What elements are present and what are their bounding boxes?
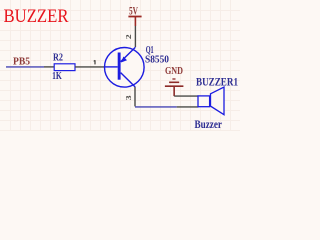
- svg-text:R2: R2: [53, 52, 63, 64]
- wire collector to buzzer: [135, 106, 177, 108]
- transistor Q1 emitter arrow (PNP): [121, 57, 127, 63]
- emitter pin 2 wire to 5V: [134, 26, 136, 47]
- svg-text:BUZZER1: BUZZER1: [196, 77, 238, 89]
- resistor R2 (pin 2, body, pin 1): [44, 66, 54, 68]
- ground symbol: [172, 78, 175, 80]
- svg-text:3: 3: [124, 95, 133, 100]
- pin number 1 (Q1 base): [94, 60, 96, 64]
- svg-text:BUZZER: BUZZER: [4, 6, 69, 27]
- wire GND to buzzer pin 1 (top): [174, 95, 198, 97]
- svg-text:PB5: PB5: [13, 56, 30, 68]
- transistor Q1 base bar: [118, 53, 121, 80]
- transistor Q1 collector line: [121, 73, 136, 87]
- buzzer BUZZER1 body: [198, 96, 210, 107]
- svg-text:2: 2: [124, 34, 133, 39]
- transistor Q1 circle: [105, 48, 145, 88]
- wire PB5 to R2: [6, 66, 44, 68]
- svg-text:GND: GND: [165, 65, 183, 77]
- buzzer pin 2 (bottom): [177, 106, 199, 108]
- buzzer BUZZER1 cone: [211, 87, 225, 115]
- collector pin 3: [134, 87, 136, 106]
- svg-text:Buzzer: Buzzer: [195, 119, 223, 131]
- svg-text:1K: 1K: [52, 70, 62, 82]
- svg-text:S8550: S8550: [145, 54, 169, 66]
- power port 5V bar symbol: [128, 16, 141, 18]
- transistor Q1 base line: [104, 66, 117, 68]
- transistor Q1 emitter line: [121, 47, 136, 62]
